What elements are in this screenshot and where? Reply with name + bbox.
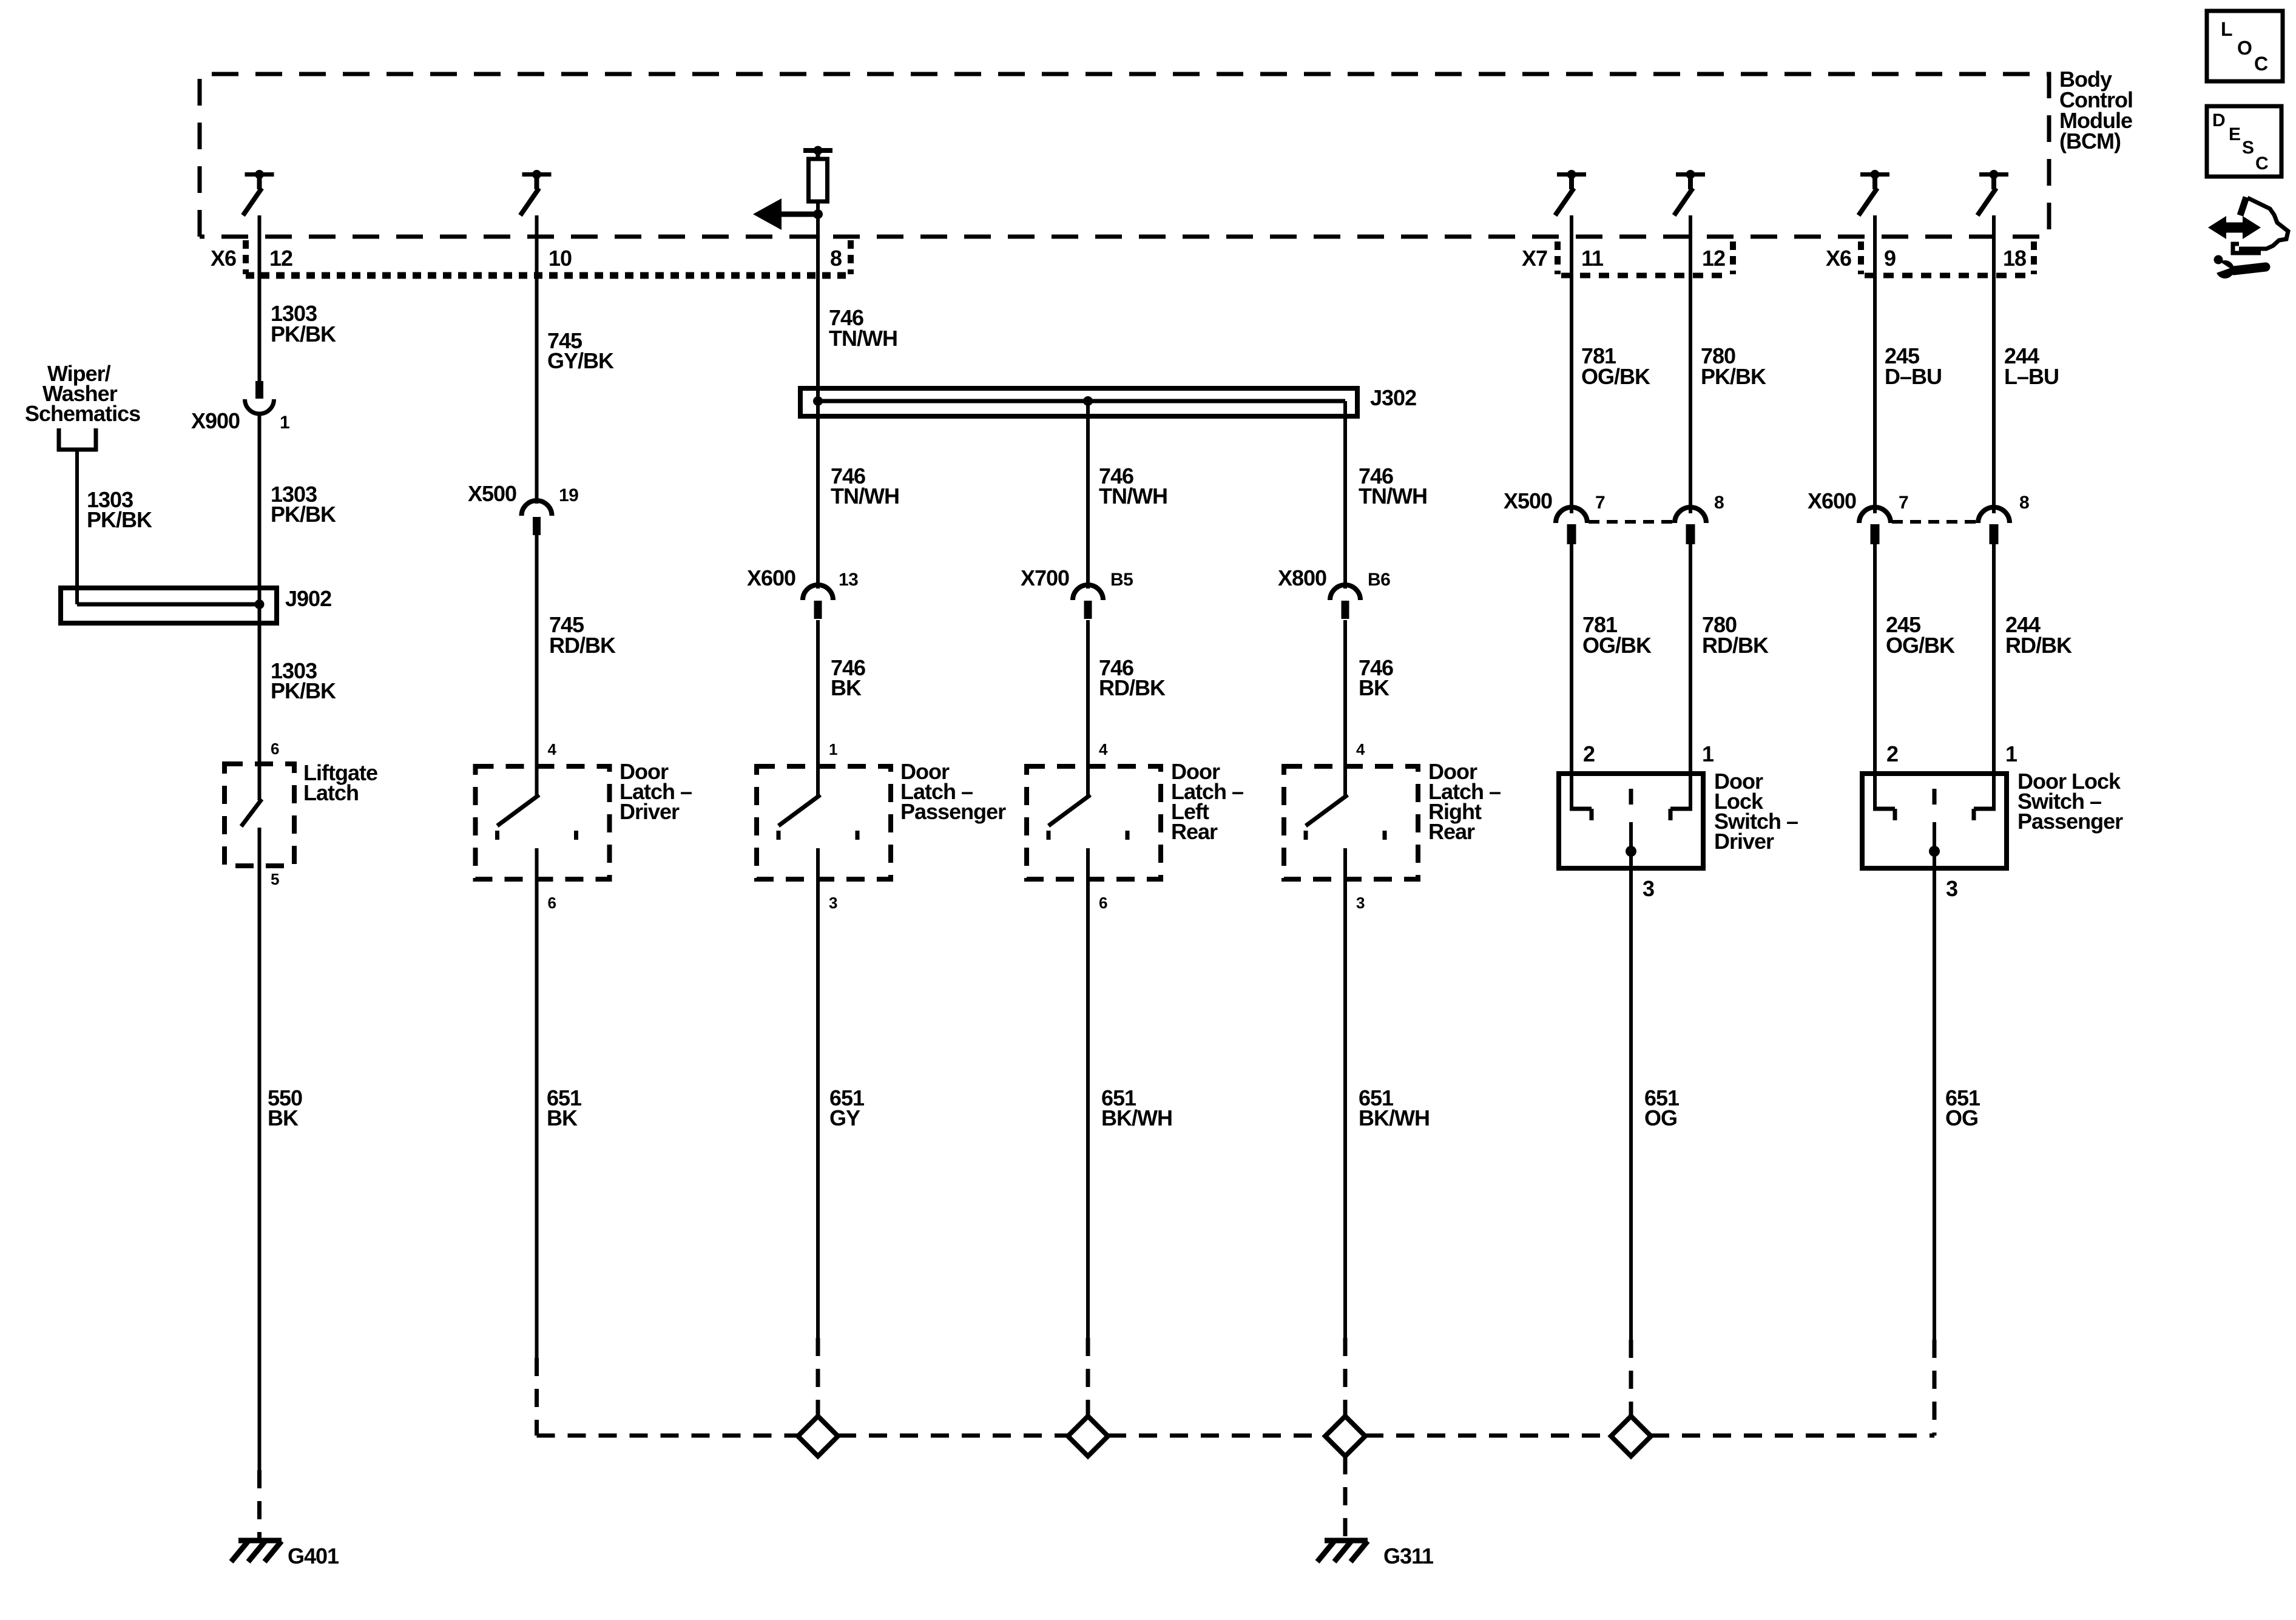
BCM internal switch driver for pin 12 (liftgate latch feed) [243,170,274,215]
connector X6 band right separator [848,240,854,274]
svg-text:RD/BK: RD/BK [1702,633,1769,658]
svg-text:8: 8 [830,246,842,271]
wire label 245 OG/BK [1886,612,1955,658]
ground G311 symbol [1317,1541,1368,1562]
double-headed arrow icon [2208,216,2261,239]
BCM internal switch driver for pin 10 (driver latch feed) [521,170,552,215]
BCM internal switch driver for pin 18 (passenger unlock) [1977,170,2008,215]
pin 2 label (door lock switch - passenger) [1886,741,1898,766]
wire label 780 PK/BK [1701,343,1766,389]
connector X600 pins 7 and 8 (arcs with dashed tie) [1859,507,2010,544]
svg-text:TN/WH: TN/WH [1099,484,1167,508]
svg-text:E: E [2229,124,2240,144]
svg-text:4: 4 [548,740,557,758]
svg-text:B6: B6 [1368,570,1390,590]
pin 1 label (door lock switch - driver) [1702,741,1714,766]
wire 244 L-BU from BCM pin 18 to X600 [1992,215,1996,513]
resistor R1 (BCM internal, pin 8 circuit) [809,159,828,201]
pin 8 label (BCM X6) [830,246,842,271]
door latch - passenger switch right contact tick [856,831,860,840]
connector X7 band left separator [1555,241,1561,274]
svg-text:OG/BK: OG/BK [1581,364,1650,389]
dashed drop from diamond to ground G311 [1343,1456,1348,1539]
Wiper/Washer Schematics reference label [25,361,140,426]
door lock switch - passenger box [1862,774,2007,868]
svg-text:G311: G311 [1383,1544,1434,1568]
Body Control Module (BCM) dashed outline box U1 [200,74,2049,237]
svg-text:C: C [2255,154,2268,174]
connector X7 band right separator [1730,241,1736,274]
junction dot on J302 at left rear latch wire [1083,396,1093,406]
door latch - driver switch left contact tick [495,831,499,840]
svg-text:RD/BK: RD/BK [1099,675,1166,700]
svg-text:4: 4 [1356,740,1365,758]
connector name X7 [1522,246,1547,271]
connector X6 band bottom dotted line (pins 12,10,8) [246,272,851,279]
ground bus junction diamond (left rear latch) [1068,1416,1108,1456]
svg-text:RD/BK: RD/BK [2005,633,2072,658]
pin 7 label (X500) [1595,493,1605,513]
svg-text:BK: BK [268,1105,299,1130]
BCM internal switch driver for pin 11 (driver lock switch) [1555,170,1586,215]
door latch - right rear switch dashed box [1284,766,1418,879]
pin 3 label (door latch - right rear switch) [1356,894,1365,912]
svg-text:13: 13 [839,570,858,590]
wire label 1303 PK/BK (middle) [271,482,336,527]
liftgate latch dashed box [225,764,294,866]
door lock switch - driver wiper dashed stub [1629,789,1633,805]
svg-text:BK: BK [547,1105,578,1130]
door lock switch - passenger wiper solid segment with junction dot [1929,822,1940,868]
svg-text:BK/WH: BK/WH [1359,1105,1430,1130]
wire label 245 D-BU [1885,343,1942,389]
svg-text:Latch: Latch [303,780,359,805]
ground bus junction diamond (right rear latch) [1325,1416,1365,1456]
DESC legend box [2207,106,2281,177]
wrench icon [2212,255,2266,279]
door latch - left rear switch name label [1171,759,1243,844]
door lock switch - driver box [1559,774,1703,868]
svg-text:TN/WH: TN/WH [1359,484,1427,508]
svg-text:1: 1 [280,413,289,433]
hand pointer outline icon [2233,197,2288,253]
ground bus dashed segment B-C [537,1434,799,1438]
ground G401 symbol [231,1541,282,1562]
svg-text:BK: BK [1359,675,1389,700]
connector X600 pin 13 symbol [803,585,833,619]
pin B5 label (X700) [1110,570,1133,590]
wire label 781 OG/BK (upper) [1581,343,1650,389]
pin 11 label (BCM X7) [1581,246,1604,271]
svg-text:OG/BK: OG/BK [1582,633,1652,658]
pin 12 label (BCM X6) [269,246,292,271]
connector X6 right band left separator [1858,241,1864,274]
svg-text:PK/BK: PK/BK [1701,364,1766,389]
connector name X500 (pin 19) [468,481,516,506]
door latch - right rear switch right contact tick [1383,831,1387,840]
wire label 746 BK (right rear latch) [1359,655,1393,700]
connector name X800 [1278,565,1326,590]
wire into door lock switch - passenger left pin [1873,540,1877,774]
wire label 1303 PK/BK (wiper branch) [87,487,152,532]
svg-text:G401: G401 [288,1544,339,1568]
splice pack J302 outer box [800,388,1357,416]
wire 651 BK dashed segment to ground bus corner [535,1358,539,1436]
ground bus dashed segment D-E [1108,1434,1325,1438]
connector X6 right band bottom dotted line (pins 9,18) [1865,273,2033,278]
svg-text:X800: X800 [1278,565,1326,590]
door lock switch - passenger right contact [1974,774,1996,820]
BCM internal switch driver for pin 9 (passenger lock switch) [1859,170,1889,215]
connector X6 band left separator [243,240,249,274]
door latch - left rear switch left contact tick [1047,831,1051,840]
wire 746 TN/WH from J302 to X600 [816,401,820,589]
door latch - driver switch name label [620,759,692,824]
svg-text:Rear: Rear [1428,819,1475,844]
svg-text:PK/BK: PK/BK [271,502,336,527]
wire label 746 BK (passenger latch) [831,655,865,700]
wire label 746 TN/WH (passenger branch) [831,464,899,508]
door latch - left rear switch switch blade [1048,795,1090,826]
wire label 651 GY [829,1085,865,1130]
svg-text:1: 1 [1702,741,1714,766]
door lock switch - passenger wiper dashed stub [1933,789,1937,805]
wire 651 BK/WH dashed segment to diamond [1086,1338,1090,1416]
connector X7 band bottom dotted line (pins 11,12) [1561,273,1730,278]
ground name G401 [288,1544,339,1568]
connector X800 pin B6 symbol [1330,585,1360,619]
wire label 745 RD/BK [549,612,616,658]
svg-text:X700: X700 [1021,565,1069,590]
door latch - left rear switch right contact tick [1126,831,1130,840]
svg-text:8: 8 [2019,493,2029,513]
ground bus dashed segment E-F [1365,1434,1611,1438]
pin 4 label (door latch - right rear switch) [1356,740,1365,758]
door latch - passenger switch name label [900,759,1006,824]
svg-text:RD/BK: RD/BK [549,633,616,658]
wire 745 GY/BK from BCM pin 10 to X500 [535,215,539,504]
wire 651 OG dashed segment to diamond [1629,1340,1633,1416]
svg-text:12: 12 [1702,246,1725,271]
splice name J302 [1370,385,1416,410]
splice pack J902 outer box [61,588,277,623]
pin 3 label (door lock switch - driver) [1643,876,1654,901]
door latch - driver switch switch blade [498,795,539,826]
svg-text:X500: X500 [468,481,516,506]
connector X6 right band right separator [2031,241,2037,274]
ground bus junction diamond (passenger latch) [798,1416,838,1456]
connector name X500 (pins 7,8) [1504,488,1552,513]
pin 5 label (liftgate latch) [271,870,279,888]
svg-text:Passenger: Passenger [900,799,1006,824]
wire label 651 OG (driver) [1644,1085,1680,1130]
svg-text:O: O [2237,37,2252,59]
BCM pull-up bar and junction dot at resistor R1 top [803,146,832,160]
wire 746 TN/WH from J302 to X800 [1343,401,1347,589]
wire 651 OG driver lock switch to ground bus [1629,868,1633,1340]
svg-text:7: 7 [1595,493,1605,513]
wire into door latch - driver switch from connector [535,535,539,796]
pin 7 label (X600) [1899,493,1908,513]
svg-text:3: 3 [1643,876,1654,901]
wire 781 OG/BK from BCM pin 11 to X500 [1570,215,1573,513]
svg-text:C: C [2254,53,2268,75]
pin 2 label (door lock switch - driver) [1583,741,1595,766]
pin 18 label (BCM X6) [2003,246,2026,271]
svg-text:X600: X600 [1808,488,1856,513]
svg-text:11: 11 [1581,246,1604,271]
liftgate latch switch blade [241,799,262,826]
svg-text:BK/WH: BK/WH [1101,1105,1172,1130]
wire 745 RD/BK from X500 to driver latch [535,535,539,796]
wire label 651 BK [547,1085,582,1130]
pin 19 label (X500) [559,485,578,505]
pin 6 label (door latch - driver switch) [548,894,556,912]
svg-text:6: 6 [271,740,279,758]
wire 1303 PK/BK from Wiper/Washer schematics to J902 [75,450,79,604]
svg-text:3: 3 [1946,876,1957,901]
connector name X600 (pin 13) [747,565,795,590]
wire 651 BK/WH left rear latch to ground bus [1086,848,1090,1338]
svg-text:9: 9 [1884,246,1896,271]
pin 13 label (X600) [839,570,858,590]
svg-text:5: 5 [271,870,279,888]
svg-text:Driver: Driver [620,799,680,824]
svg-text:3: 3 [1356,894,1365,912]
svg-text:19: 19 [559,485,578,505]
wire 1303 PK/BK from X900 to splice J902 [258,414,262,604]
svg-text:J302: J302 [1370,385,1416,410]
wire label 244 L-BU [2004,343,2059,389]
svg-text:12: 12 [269,246,292,271]
junction dot on J902 at column wire [255,599,265,609]
svg-text:Driver: Driver [1714,829,1774,854]
connector name X600 (pins 7,8) [1808,488,1856,513]
svg-text:L–BU: L–BU [2004,364,2059,389]
door lock switch - driver wiper solid segment with junction dot [1626,822,1636,868]
door latch - right rear switch name label [1428,759,1501,844]
schematic reference bracket [57,428,98,451]
door latch - driver switch right contact tick [574,831,578,840]
pin 6 label (door latch - left rear switch) [1099,894,1107,912]
svg-text:OG/BK: OG/BK [1886,633,1955,658]
wire label 550 BK [268,1085,302,1130]
svg-text:(BCM): (BCM) [2059,129,2121,154]
wire into door latch - left rear switch from connector [1086,620,1090,796]
svg-text:S: S [2242,138,2254,158]
ground name G311 [1383,1544,1434,1568]
svg-text:2: 2 [1583,741,1595,766]
connector name X6 (left band) [211,246,236,271]
pin 1 label (door latch - passenger switch) [829,740,837,758]
connector name X700 [1021,565,1069,590]
door lock switch - passenger left contact [1873,774,1895,820]
splice J902 internal bus line [77,602,260,607]
connector X500 pins 7 and 8 (arcs with dashed tie) [1556,507,1706,544]
wire 651 BK driver latch to ground bus [535,848,539,1358]
wire 651 OG dashed segment to ground bus corner [1933,1340,1937,1436]
wire label 1303 PK/BK (lower) [271,658,336,703]
pin 1 label (X900) [280,413,289,433]
svg-text:OG: OG [1945,1105,1978,1130]
svg-text:X6: X6 [211,246,236,271]
svg-text:Passenger: Passenger [2017,809,2123,834]
connector X700 pin B5 symbol [1073,585,1103,619]
ground bus dashed segment F-right corner [1651,1434,1934,1438]
splice name J902 [285,586,331,611]
pin 12 label (BCM X7) [1702,246,1725,271]
svg-text:X6: X6 [1826,246,1851,271]
door latch - passenger switch left contact tick [777,831,781,840]
junction dot on J302 at passenger latch wire [813,396,823,406]
svg-text:1: 1 [829,740,837,758]
svg-text:Rear: Rear [1171,819,1218,844]
LOC legend box [2207,11,2283,81]
connector name X6 (right band) [1826,246,1851,271]
svg-text:PK/BK: PK/BK [87,507,152,532]
svg-text:BK: BK [831,675,862,700]
door lock switch - passenger name label [2017,769,2123,834]
wire into door latch - right rear switch from connector [1343,620,1347,796]
wire into door lock switch - driver right pin [1689,540,1692,774]
svg-text:X900: X900 [191,408,240,433]
svg-text:8: 8 [1714,493,1724,513]
wire 746 TN/WH from J302 to X700 [1086,401,1090,589]
wire label 745 GY/BK [547,328,614,373]
BCM name label [2059,67,2133,154]
svg-text:4: 4 [1099,740,1108,758]
svg-text:18: 18 [2003,246,2026,271]
wire label 746 TN/WH (pin 8) [829,305,897,351]
wire label 651 OG (passenger) [1945,1085,1980,1130]
wire into door latch - passenger switch from connector [816,620,820,796]
wire label 746 RD/BK (left rear latch) [1099,655,1166,700]
svg-text:6: 6 [1099,894,1107,912]
wire label 651 BK/WH (left rear) [1101,1085,1172,1130]
svg-text:GY/BK: GY/BK [547,348,614,373]
wire 1303 PK/BK from BCM pin 12 to X900 [258,215,262,382]
wire 651 BK/WH right rear latch to ground bus [1343,848,1347,1338]
wire label 244 RD/BK [2005,612,2072,658]
svg-text:J902: J902 [285,586,331,611]
svg-text:7: 7 [1899,493,1908,513]
door latch - right rear switch left contact tick [1304,831,1308,840]
wire 1303 PK/BK from J902 to liftgate latch [258,604,262,800]
svg-text:2: 2 [1886,741,1898,766]
pin 3 label (door lock switch - passenger) [1946,876,1957,901]
door latch - driver switch dashed box [476,766,610,879]
wire 780 PK/BK from BCM pin 12 to X500 [1689,215,1692,513]
wire label 1303 PK/BK (upper) [271,301,336,346]
door latch - passenger switch dashed box [757,766,891,879]
wire 651 OG passenger lock switch to ground bus [1933,868,1936,1340]
door latch - right rear switch switch blade [1306,795,1348,826]
splice J302 internal bus line [818,399,1345,403]
pin B6 label (X800) [1368,570,1390,590]
connector name X900 [191,408,240,433]
wire label 746 TN/WH (left rear branch) [1099,464,1167,508]
door latch - left rear switch dashed box [1027,766,1161,879]
svg-text:Schematics: Schematics [25,401,140,426]
door lock switch - driver left contact [1570,774,1592,820]
ground bus junction diamond (driver lock switch) [1611,1416,1651,1456]
wire 245 D-BU from BCM pin 9 to X600 [1873,215,1877,513]
svg-text:1: 1 [2005,741,2017,766]
ground bus dashed segment C-D [838,1434,1068,1438]
svg-text:X600: X600 [747,565,795,590]
pin 4 label (door latch - left rear switch) [1099,740,1108,758]
pin 8 label (X500) [1714,493,1724,513]
wire label 651 BK/WH (right rear) [1359,1085,1430,1130]
pin 10 label (BCM X6) [549,246,572,271]
wire label 780 RD/BK [1702,612,1769,658]
connector X500 pin 19 symbol (socket above, pin below) [522,501,552,535]
svg-text:6: 6 [548,894,556,912]
liftgate latch name label [303,760,377,805]
svg-text:L: L [2221,18,2232,40]
wire label 781 OG/BK (lower) [1582,612,1652,658]
svg-text:D–BU: D–BU [1885,364,1942,389]
pin 4 label (door latch - driver switch) [548,740,557,758]
wire 550 BK dashed continuation to G401 [257,1470,262,1539]
svg-text:B5: B5 [1110,570,1133,590]
svg-text:OG: OG [1644,1105,1677,1130]
svg-text:TN/WH: TN/WH [829,326,897,351]
door lock switch - driver name label [1714,769,1798,854]
wire into door lock switch - driver left pin [1570,540,1573,774]
wire 746 TN/WH from BCM pin 8 to splice J302 [816,214,820,401]
pin 8 label (X600) [2019,493,2029,513]
internal signal arrow (points left) with junction dot, BCM pin 8 [753,198,823,230]
wire resistor R1 to arrow node [816,201,820,214]
wire 550 BK liftgate latch to ground [258,828,262,1470]
wire 651 GY passenger latch to ground bus [816,848,820,1338]
door latch - passenger switch switch blade [778,795,820,826]
pin 3 label (door latch - passenger switch) [829,894,837,912]
svg-text:10: 10 [549,246,572,271]
svg-text:X7: X7 [1522,246,1547,271]
svg-text:TN/WH: TN/WH [831,484,899,508]
BCM internal switch driver for pin 12 (driver unlock) [1674,170,1705,215]
wire label 746 TN/WH (right rear branch) [1359,464,1427,508]
svg-text:3: 3 [829,894,837,912]
svg-text:X500: X500 [1504,488,1552,513]
svg-text:PK/BK: PK/BK [271,322,336,346]
door lock switch - driver right contact [1670,774,1692,820]
wire 651 GY dashed segment to diamond [816,1338,820,1416]
pin 6 label (liftgate latch) [271,740,279,758]
pin 9 label (BCM X6) [1884,246,1896,271]
wire into door lock switch - passenger right pin [1992,540,1996,774]
wire 651 BK/WH dashed segment to diamond [1343,1338,1348,1416]
svg-text:PK/BK: PK/BK [271,678,336,703]
pin 1 label (door lock switch - passenger) [2005,741,2017,766]
svg-text:GY: GY [829,1105,860,1130]
connector X900 symbol (pin above, socket below) [245,381,274,414]
svg-text:D: D [2212,110,2225,130]
